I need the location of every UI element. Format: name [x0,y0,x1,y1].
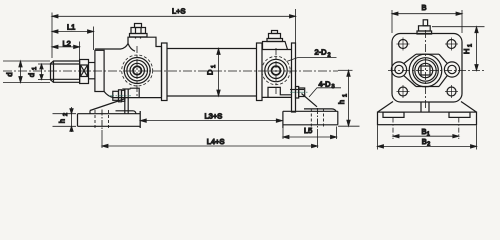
dimension L5 [283,127,337,140]
svg-text:2-D: 2-D [315,47,328,56]
bolt holes [397,38,459,99]
svg-text:B: B [422,127,427,136]
left foot hole hidden lines [95,110,109,131]
dimension h2 left [53,107,77,132]
svg-text:L4+S: L4+S [207,137,225,146]
left foot bracket [78,89,141,128]
central bore circles [409,54,442,87]
front head block [95,37,162,97]
end view center lines [388,30,485,109]
right foot bolt center line [290,91,308,93]
pivot circles in boss ears [395,65,456,73]
rear flange [257,43,263,101]
svg-text:L3+S: L3+S [205,111,223,120]
dimension L2 [52,42,80,61]
svg-text:2: 2 [328,52,331,58]
svg-text:L5: L5 [304,126,312,135]
rod thread block [51,61,80,82]
front flange [162,43,168,101]
rear head block [262,42,296,113]
svg-text:L2: L2 [63,39,71,48]
rear port fitting [267,31,283,42]
front port circles [122,55,153,86]
flange square [392,34,462,103]
svg-text:1: 1 [211,65,217,68]
label 2-D2 with leader [287,58,337,62]
svg-text:1: 1 [427,131,430,137]
dimension B1 [393,118,459,140]
svg-text:h: h [337,100,346,104]
svg-text:d: d [5,72,14,76]
right foot hole hidden lines [311,108,323,129]
dimension L4+S [102,129,318,148]
left foot bolt center line [109,95,131,97]
dimension L+S [52,9,296,58]
main center line side view [3,70,338,72]
label 4-D3 with leader [309,88,341,97]
dimension B2 [378,125,477,149]
dimension d [3,61,50,83]
svg-text:2: 2 [427,142,430,148]
central boss with ear lobes [391,54,459,86]
dimension B [392,10,462,33]
dimension d1 [38,64,50,80]
dimension h1 right [338,70,360,126]
svg-text:D: D [206,69,215,75]
svg-text:B: B [422,137,427,146]
dimension H1 [432,27,485,71]
svg-text:L1: L1 [67,22,75,31]
cylinder barrel [167,49,257,97]
front port center line [136,46,138,97]
right foot bracket [283,87,338,129]
svg-text:h: h [58,119,67,123]
rear port center line [275,48,277,95]
rear port circles [262,56,290,84]
svg-text:H: H [462,49,471,54]
svg-text:2: 2 [63,113,69,116]
gland retainer plate [95,50,104,91]
end view pedestal [378,102,477,113]
svg-text:d: d [27,73,36,77]
dimension L1 [52,27,94,51]
svg-text:1: 1 [468,44,474,47]
end view top fitting [417,20,432,34]
svg-text:L+S: L+S [172,7,186,16]
dimension D1 [217,49,220,97]
front port fitting on boss [130,24,148,39]
svg-text:B: B [422,3,427,12]
rod collar with wrench flats [80,60,89,84]
svg-text:1: 1 [32,67,38,70]
dimension L3+S [140,111,282,128]
svg-text:3: 3 [332,84,335,90]
rod stub to gland [89,63,96,79]
svg-text:4-D: 4-D [319,79,332,88]
end view base [378,112,477,125]
svg-text:1: 1 [343,94,349,97]
